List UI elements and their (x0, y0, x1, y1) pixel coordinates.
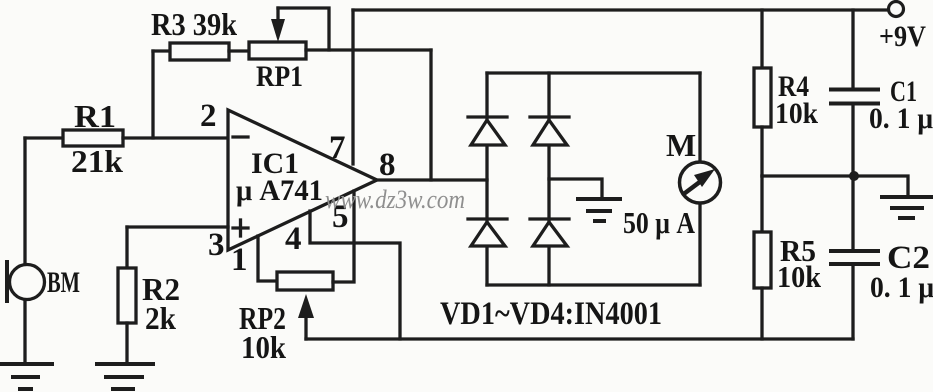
wire op-amp output (377, 178, 487, 181)
svg-text:10k: 10k (241, 329, 286, 365)
wire pin4 down to bottom rail (310, 211, 400, 339)
bridge left vertical (485, 73, 488, 285)
wire feedback down to output (429, 50, 432, 180)
wire R5 top lead (760, 176, 763, 232)
svg-text:RP1: RP1 (256, 60, 303, 93)
wire mid rail to right ground (762, 176, 908, 197)
wire pin7 supply (351, 10, 354, 164)
bridge middle vertical (547, 73, 550, 285)
wire R3 left lead (153, 49, 170, 52)
svg-text:+9V: +9V (879, 20, 926, 53)
bridge top edge (487, 71, 700, 74)
svg-text:μ A741: μ A741 (236, 174, 323, 207)
wire R5 bottom lead (760, 288, 763, 339)
svg-text:M: M (666, 127, 696, 163)
wire RP1 right lead (306, 48, 431, 51)
svg-text:21k: 21k (71, 143, 123, 179)
wire bridge mid to ground (549, 179, 602, 197)
wire R1 to pin2 (123, 136, 228, 139)
op-amp IC1 triangle (228, 110, 377, 250)
diode VD2 (530, 117, 569, 145)
wire C2 top lead (851, 176, 854, 249)
wire bottom rail (306, 337, 853, 340)
svg-text:VD1~VD4:IN4001: VD1~VD4:IN4001 (440, 296, 662, 332)
wire C1 bottom lead (851, 105, 854, 176)
RP2 wiper arrow (298, 294, 314, 339)
wire C2 bottom lead (851, 265, 854, 339)
wire R2 top lead (125, 227, 128, 268)
svg-text:10k: 10k (777, 259, 822, 294)
wire pin3 horizontal (127, 225, 228, 228)
terminal +9V (889, 2, 904, 17)
svg-text:4: 4 (285, 221, 302, 257)
diode VD4 (530, 219, 569, 246)
svg-text:0. 1 μ: 0. 1 μ (870, 271, 933, 304)
diode VD3 (468, 219, 507, 246)
svg-text:0. 1 μ: 0. 1 μ (869, 102, 933, 135)
ground bridge (578, 199, 620, 221)
svg-text:1: 1 (231, 242, 248, 278)
wire C1 top lead (851, 10, 854, 88)
svg-text:BM: BM (47, 266, 80, 299)
plus sign pin3 (233, 220, 248, 236)
svg-text:2k: 2k (145, 300, 176, 336)
svg-text:8: 8 (379, 147, 396, 183)
svg-text:2: 2 (200, 98, 217, 134)
resistor R2 (118, 268, 136, 323)
ground BM (1, 364, 52, 389)
wire pin1 down (258, 236, 277, 281)
wire R3 to RP1 (229, 49, 249, 52)
ground R2 (97, 364, 153, 389)
wire pin5 down to RP2 right (333, 191, 354, 282)
potentiometer RP2 body (277, 272, 333, 290)
wire R4 top lead (760, 10, 763, 68)
resistor R3 (170, 43, 229, 60)
wire mic bottom (23, 300, 26, 364)
diode VD1 (468, 117, 507, 145)
wire RP1 wiper to right terminal (278, 8, 329, 50)
minus sign pin2 (233, 135, 248, 138)
meter M (680, 162, 721, 203)
capacitor C2 (831, 251, 878, 264)
svg-text:R3 39k: R3 39k (151, 6, 237, 42)
bridge bottom edge (487, 283, 700, 286)
wire mic top to R1 (23, 138, 26, 265)
bridge right edge bottom (698, 203, 701, 285)
bridge right edge top (698, 73, 701, 162)
svg-text:R1: R1 (74, 98, 116, 134)
resistor R4 (754, 68, 771, 127)
microphone BM (7, 262, 45, 301)
ground right (882, 197, 931, 218)
wire pin2 horizontal left (25, 136, 63, 139)
resistor R1 (63, 130, 123, 146)
wire top rail +9V (353, 8, 889, 11)
wire node pin2 up to R3 (151, 51, 154, 138)
svg-text:3: 3 (208, 227, 225, 263)
capacitor C1 (831, 90, 878, 104)
svg-text:www.dz3w.com: www.dz3w.com (325, 185, 465, 214)
svg-text:10k: 10k (775, 97, 818, 130)
wire R4 bottom lead (760, 127, 763, 176)
RP1 wiper arrow (271, 8, 285, 42)
resistor R5 (754, 232, 771, 288)
svg-text:50 μ A: 50 μ A (623, 205, 696, 240)
potentiometer RP1 body (249, 42, 306, 59)
wire R2 bottom lead (125, 323, 128, 364)
svg-text:7: 7 (329, 130, 346, 166)
junction node (849, 171, 859, 181)
